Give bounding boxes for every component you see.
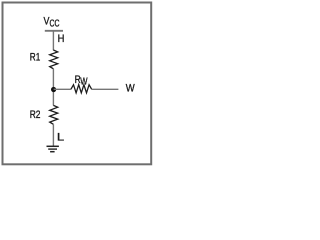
resistor R1 xyxy=(30,50,58,69)
node junction xyxy=(51,87,56,92)
svg-text:L: L xyxy=(57,130,64,143)
svg-text:R2: R2 xyxy=(30,109,41,122)
node VCC xyxy=(44,16,60,29)
wire xyxy=(52,31,54,51)
terminal H xyxy=(45,31,65,46)
svg-text:W: W xyxy=(126,83,135,95)
svg-text:W: W xyxy=(80,75,88,86)
svg-text:R1: R1 xyxy=(30,52,41,65)
wire xyxy=(52,124,54,146)
wire xyxy=(92,88,119,90)
svg-text:H: H xyxy=(58,33,65,45)
wire xyxy=(54,88,71,90)
svg-text:CC: CC xyxy=(50,17,60,29)
resistor RW xyxy=(71,74,92,93)
wire xyxy=(52,69,54,106)
resistor R2 xyxy=(30,105,58,124)
ground xyxy=(47,146,59,151)
svg-text:V: V xyxy=(44,16,50,28)
